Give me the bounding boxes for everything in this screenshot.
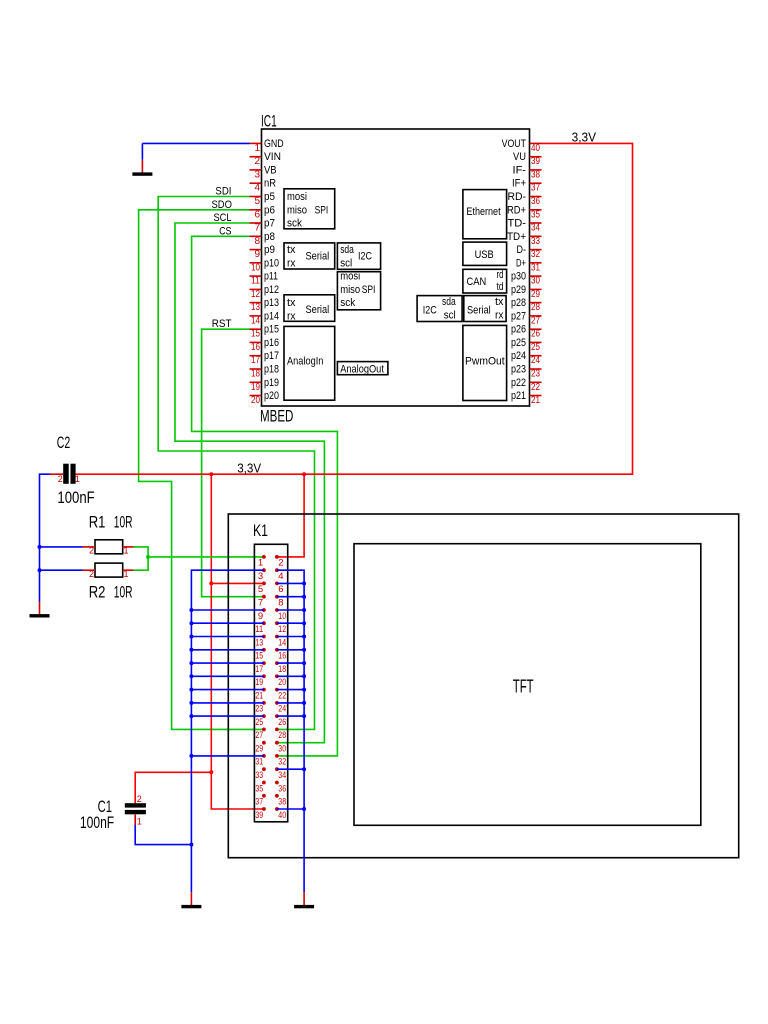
IC1 pin 3 (VB) stub [250, 169, 262, 171]
svg-text:p27: p27 [511, 310, 526, 322]
svg-text:nR: nR [264, 178, 276, 190]
svg-text:p8: p8 [264, 231, 275, 243]
svg-text:VU: VU [513, 151, 526, 163]
svg-text:27: 27 [531, 315, 540, 326]
svg-text:15: 15 [255, 651, 263, 662]
svg-text:rx: rx [287, 257, 296, 269]
wire SDO: p6 to K1 pin27 (green) [139, 210, 264, 730]
svg-text:p11: p11 [264, 271, 278, 283]
svg-text:p21: p21 [511, 390, 526, 402]
K1 pin 39 dot [262, 807, 266, 811]
svg-text:13: 13 [251, 302, 260, 313]
wire SCL: p7 to K1 pin30 (green) [175, 223, 324, 743]
wire left bus rung to K1 pin 21 (blue) [191, 689, 264, 691]
IC1 internal SPI box (p5-p7) [284, 189, 335, 230]
IC1 pin 19 (p19) stub [250, 381, 262, 383]
IC1 internal Ethernet box [463, 190, 507, 239]
svg-text:10R: 10R [114, 513, 133, 532]
K1 pin 19 dot [262, 674, 266, 678]
svg-text:33: 33 [255, 770, 263, 781]
wire left bus rung to K1 pin 9 (blue) [191, 609, 264, 611]
IC1 pin 40 (VOUT) stub [530, 142, 542, 144]
IC1 pin 20 (p20) stub [250, 395, 262, 397]
svg-text:RD-: RD- [508, 191, 527, 203]
svg-text:14: 14 [278, 637, 286, 648]
IC1 pin 30 (p30) stub [530, 275, 542, 277]
wire 3.3V drop to K1 pin5 / C1 / pin39 (red) [211, 474, 264, 809]
svg-text:p15: p15 [264, 324, 279, 336]
junction on 3.3V at x=304.1 [302, 472, 306, 476]
svg-text:32: 32 [278, 757, 286, 768]
svg-text:25: 25 [255, 717, 263, 728]
svg-text:td: td [497, 281, 504, 293]
wire branch to R1 pin2 (blue) [40, 546, 83, 548]
ground symbol bottom left [181, 892, 201, 908]
svg-text:sda: sda [442, 296, 456, 308]
junction left bus row 13 [189, 714, 193, 718]
svg-text:24: 24 [531, 355, 540, 366]
R2 pin1 stub [123, 569, 134, 571]
svg-text:p5: p5 [264, 191, 275, 203]
junction right bus row 13 [302, 714, 306, 718]
svg-text:R2: R2 [89, 583, 106, 602]
svg-text:D+: D+ [516, 257, 526, 269]
K1 pin 9 dot [262, 608, 266, 612]
wire right bus rung to K1 pin 24 (blue) [277, 702, 304, 704]
svg-text:3: 3 [254, 169, 260, 180]
junction right bus row 12 [302, 701, 306, 705]
IC1 internal I2C box (p9-p10) [337, 243, 380, 269]
IC1 internal AnalogIn box (p15-p20) [284, 326, 335, 400]
IC1 pin 21 (p21) stub [530, 395, 542, 397]
wire R1/R2 pin1 join (green) [134, 547, 149, 570]
svg-text:40: 40 [531, 143, 540, 154]
IC1 pin 25 (p25) stub [530, 341, 542, 343]
wire right bus rung to K1 pin 6 (blue) [277, 582, 304, 584]
IC1 pin 5 (p5) stub [250, 196, 262, 198]
junction left bus row 16 [189, 754, 193, 758]
svg-text:p22: p22 [511, 377, 526, 389]
wire 3.3V drop to K1 pin2 (red) [277, 474, 304, 557]
IC1 pin 15 (p15) stub [250, 328, 262, 330]
IC1 pin 26 (p26) stub [530, 328, 542, 330]
svg-text:D-: D- [517, 244, 527, 256]
IC1 pin 23 (p23) stub [530, 368, 542, 370]
capacitor C2 [63, 464, 75, 484]
svg-text:38: 38 [531, 169, 540, 180]
resistor R1 [95, 540, 123, 554]
svg-text:2: 2 [254, 156, 260, 167]
svg-text:4: 4 [278, 571, 283, 582]
K1 pin 35 dot [262, 781, 266, 785]
K1 pin 36 dot [275, 781, 279, 785]
wire left bus rung to K1 pin 19 (blue) [191, 675, 264, 677]
svg-text:100nF: 100nF [80, 813, 114, 832]
junction right bus row 9 [302, 661, 306, 665]
junction left bus row 12 [189, 701, 193, 705]
wire GND bus from C2 down to ground (blue) [40, 474, 51, 601]
svg-text:26: 26 [278, 717, 286, 728]
svg-text:9: 9 [254, 249, 260, 260]
svg-text:17: 17 [255, 664, 263, 675]
junction right bus row 4 [302, 595, 306, 599]
K1 pin 16 dot [275, 648, 279, 652]
IC1 pin 36 (RD-) stub [530, 196, 542, 198]
svg-text:18: 18 [251, 369, 260, 380]
wire left bus rung to K1 pin 13 (blue) [191, 636, 264, 638]
K1 pin 25 dot [262, 714, 266, 718]
IC1 internal SPI box 2 (p11-p13) [337, 271, 380, 310]
svg-text:C2: C2 [57, 433, 70, 452]
svg-text:28: 28 [531, 302, 540, 313]
junction right bus row 6 [302, 621, 306, 625]
junction at C1 branch [209, 770, 213, 774]
svg-text:1: 1 [124, 569, 129, 579]
svg-text:4: 4 [254, 183, 260, 194]
wire left bus rung to K1 pin 25 (blue) [191, 715, 264, 717]
svg-text:Ethernet: Ethernet [466, 206, 500, 218]
K1 pin 21 dot [262, 688, 266, 692]
svg-text:8: 8 [278, 598, 283, 609]
wire left bus rung to K1 pin 17 (blue) [191, 662, 264, 664]
svg-text:10: 10 [278, 611, 286, 622]
IC1 internal I2C box 2 (p28-p27) [417, 296, 462, 322]
junction right bus row 20 [302, 807, 306, 811]
IC1 pin 22 (p22) stub [530, 381, 542, 383]
K1 pin 11 dot [262, 621, 266, 625]
IC1 pin 4 (nR) stub [250, 182, 262, 184]
IC1 pin 10 (p10) stub [250, 262, 262, 264]
wire branch to K1 pin5 (red) [211, 582, 264, 584]
junction on 3.3V at x=211.3 [209, 472, 213, 476]
svg-text:IC1: IC1 [261, 112, 277, 131]
IC1 pin 8 (p8) stub [250, 235, 262, 237]
IC1 pin 29 (p29) stub [530, 288, 542, 290]
svg-text:RD+: RD+ [507, 204, 526, 216]
svg-text:9: 9 [258, 611, 263, 622]
svg-text:p23: p23 [511, 364, 526, 376]
K1 pin 22 dot [275, 688, 279, 692]
IC1 pin 18 (p18) stub [250, 368, 262, 370]
svg-text:10: 10 [251, 262, 260, 273]
K1 pin 34 dot [275, 767, 279, 771]
svg-text:2: 2 [278, 558, 283, 569]
svg-text:scl: scl [340, 257, 352, 269]
svg-text:p17: p17 [264, 350, 279, 362]
wire 3.3V from VOUT (red) [76, 143, 633, 474]
svg-text:I2C: I2C [423, 305, 437, 317]
svg-text:22: 22 [278, 690, 286, 701]
K1 pin 23 dot [262, 701, 266, 705]
K1 pin 4 dot [275, 568, 279, 572]
svg-text:31: 31 [531, 262, 540, 273]
svg-text:21: 21 [531, 395, 540, 406]
junction left bus row 5 [189, 608, 193, 612]
wire GND vertical drop [141, 143, 143, 159]
svg-text:SPI: SPI [315, 204, 329, 216]
junction R net [146, 555, 150, 559]
svg-text:Serial: Serial [306, 251, 330, 263]
IC1 pin 31 (D+) stub [530, 262, 542, 264]
K1 pin 18 dot [275, 661, 279, 665]
svg-text:2: 2 [137, 794, 142, 804]
IC1 pin 24 (p24) stub [530, 355, 542, 357]
svg-text:35: 35 [255, 783, 263, 794]
svg-text:USB: USB [475, 249, 494, 261]
IC1 pin 16 (p16) stub [250, 341, 262, 343]
IC1 pin 2 (VIN) stub [250, 156, 262, 158]
junction left bus at C1 [189, 843, 193, 847]
svg-text:7: 7 [254, 223, 260, 234]
resistor R2 [95, 563, 123, 577]
IC1 pin 11 (p11) stub [250, 275, 262, 277]
svg-text:1: 1 [75, 474, 80, 484]
svg-text:5: 5 [258, 584, 263, 595]
svg-text:12: 12 [251, 289, 260, 300]
svg-text:p25: p25 [511, 337, 526, 349]
wire right bus rung to K1 pin 12 (blue) [277, 622, 304, 624]
svg-text:13: 13 [255, 637, 263, 648]
wire left bus rung to K1 pin 15 (blue) [191, 649, 264, 651]
svg-text:p9: p9 [264, 244, 275, 256]
IC1 internal Serial box 3 (p28-p27) [464, 296, 506, 322]
K1 pin 31 dot [262, 754, 266, 758]
IC1 pin 38 (IF-) stub [530, 169, 542, 171]
svg-text:12: 12 [278, 624, 286, 635]
K1 pin 20 dot [275, 674, 279, 678]
svg-text:VB: VB [264, 164, 277, 176]
svg-text:GND: GND [264, 138, 284, 150]
IC1 pin 13 (p13) stub [250, 302, 262, 304]
IC1 pin 27 (p27) stub [530, 315, 542, 317]
K1 pin 6 dot [275, 582, 279, 586]
K1 pin 40 dot [275, 807, 279, 811]
C2 pin 2 stub [50, 473, 63, 475]
svg-text:39: 39 [531, 156, 540, 167]
svg-text:p24: p24 [511, 350, 526, 362]
wire right bus rung to K1 pin 22 (blue) [277, 689, 304, 691]
K1 pin 3 dot [262, 568, 266, 572]
svg-text:32: 32 [531, 249, 540, 260]
svg-text:miso: miso [340, 284, 360, 296]
wire right bus rung to K1 pin 18 (blue) [277, 662, 304, 664]
wire right GND bus from K1 pin4 (blue) [277, 570, 304, 892]
svg-text:1: 1 [124, 546, 129, 556]
svg-text:19: 19 [251, 382, 260, 393]
svg-text:10R: 10R [114, 583, 133, 602]
TFT screen inner rectangle [354, 544, 701, 826]
IC1 internal CAN box (p30-p29) [463, 269, 507, 293]
svg-text:3: 3 [258, 571, 263, 582]
wire C1 pin1 to left bus (blue) [135, 825, 191, 845]
svg-text:PwmOut: PwmOut [465, 356, 505, 368]
IC1 internal Serial box (p9-p10) [284, 243, 335, 269]
svg-text:1: 1 [254, 143, 260, 154]
IC1 pin 17 (p17) stub [250, 355, 262, 357]
svg-text:p28: p28 [511, 297, 526, 309]
svg-text:mosi: mosi [340, 271, 360, 283]
svg-text:2: 2 [89, 569, 94, 579]
wire RST: p15 to K1 pin7 (green) [202, 329, 264, 597]
svg-text:SPI: SPI [362, 284, 376, 296]
junction right bus row 11 [302, 688, 306, 692]
svg-text:37: 37 [531, 183, 540, 194]
svg-text:25: 25 [531, 342, 540, 353]
svg-text:p18: p18 [264, 364, 279, 376]
svg-text:MBED: MBED [260, 407, 293, 426]
IC1 pin 32 (D-) stub [530, 249, 542, 251]
IC1 pin 35 (RD+) stub [530, 209, 542, 211]
svg-text:27: 27 [255, 730, 263, 741]
K1 pin 15 dot [262, 648, 266, 652]
wire branch to R2 pin2 (blue) [40, 569, 83, 571]
svg-text:Serial: Serial [306, 304, 330, 316]
svg-text:23: 23 [255, 704, 263, 715]
svg-text:11: 11 [255, 624, 263, 635]
junction right bus row 5 [302, 608, 306, 612]
K1 pin 33 dot [262, 767, 266, 771]
IC1 pin 34 (TD-) stub [530, 222, 542, 224]
svg-text:p30: p30 [511, 271, 526, 283]
svg-text:29: 29 [531, 289, 540, 300]
K1 pin 2 dot [275, 555, 279, 559]
K1 pin 5 dot [262, 582, 266, 586]
IC1 pin 39 (VU) stub [530, 156, 542, 158]
svg-text:8: 8 [254, 236, 260, 247]
svg-text:1: 1 [137, 817, 142, 827]
svg-text:36: 36 [278, 783, 286, 794]
wire right bus rung to K1 pin 26 (blue) [277, 715, 304, 717]
svg-text:3,3V: 3,3V [237, 462, 262, 476]
svg-text:26: 26 [531, 329, 540, 340]
svg-text:40: 40 [278, 810, 286, 821]
svg-text:p29: p29 [511, 284, 526, 296]
svg-text:39: 39 [255, 810, 263, 821]
K1 pin 32 dot [275, 754, 279, 758]
K1 pin 24 dot [275, 701, 279, 705]
svg-text:p13: p13 [264, 297, 279, 309]
wire right bus rung to K1 pin 14 (blue) [277, 636, 304, 638]
svg-text:AnalogIn: AnalogIn [287, 356, 323, 368]
svg-text:VOUT: VOUT [502, 138, 527, 150]
C1 pin1 stub [134, 814, 136, 825]
capacitor C1 [125, 803, 146, 814]
svg-text:IF+: IF+ [512, 178, 526, 190]
junction right bus row 8 [302, 648, 306, 652]
svg-text:6: 6 [278, 584, 283, 595]
wire right bus rung to K1 pin 16 (blue) [277, 649, 304, 651]
IC1 pin 9 (p9) stub [250, 249, 262, 251]
ground symbol below C2/R bus [30, 602, 50, 618]
svg-text:28: 28 [278, 730, 286, 741]
svg-text:20: 20 [251, 395, 260, 406]
IC1 pin 1 (GND) stub [250, 142, 262, 144]
IC1 internal Serial box 2 (p13-p14) [284, 295, 335, 323]
svg-text:7: 7 [258, 598, 263, 609]
R2 pin2 stub [83, 569, 96, 571]
svg-text:p10: p10 [264, 257, 279, 269]
op-amp IC1 (MBED module) outline [262, 129, 530, 406]
svg-text:36: 36 [531, 196, 540, 207]
wire right bus rung to K1 pin 10 (blue) [277, 609, 304, 611]
net GND wire from IC1 pin1 (blue) [142, 142, 249, 144]
svg-text:p7: p7 [264, 218, 275, 230]
svg-text:33: 33 [531, 236, 540, 247]
junction left bus row 9 [189, 661, 193, 665]
IC1 pin 7 (p7) stub [250, 222, 262, 224]
svg-text:sck: sck [287, 218, 302, 230]
svg-text:p12: p12 [264, 284, 279, 296]
svg-text:23: 23 [531, 369, 540, 380]
junction left bus row 10 [189, 674, 193, 678]
IC1 pin 14 (p14) stub [250, 315, 262, 317]
svg-text:29: 29 [255, 744, 263, 755]
svg-text:31: 31 [255, 757, 263, 768]
wire right bus rung to K1 pin 8 (blue) [277, 596, 304, 598]
svg-text:K1: K1 [253, 521, 268, 540]
svg-text:sck: sck [340, 297, 355, 309]
svg-text:34: 34 [278, 770, 286, 781]
junction at pin5 branch [209, 581, 213, 585]
svg-text:35: 35 [531, 209, 540, 220]
K1 pin 26 dot [275, 714, 279, 718]
svg-text:mosi: mosi [287, 191, 307, 203]
svg-text:34: 34 [531, 223, 540, 234]
svg-text:17: 17 [251, 355, 260, 366]
IC1 internal PwmOut box (p26-p21) [463, 325, 507, 400]
svg-text:100nF: 100nF [57, 488, 94, 507]
connector K1 outline [254, 544, 287, 822]
svg-text:19: 19 [255, 677, 263, 688]
svg-text:38: 38 [278, 797, 286, 808]
svg-text:Serial: Serial [467, 305, 491, 317]
svg-text:6: 6 [254, 209, 260, 220]
svg-text:18: 18 [278, 664, 286, 675]
svg-text:5: 5 [254, 196, 260, 207]
svg-text:30: 30 [278, 744, 286, 755]
svg-text:rx: rx [287, 310, 296, 322]
junction at R1 branch [38, 545, 42, 549]
junction left bus row 11 [189, 688, 193, 692]
svg-text:I2C: I2C [358, 251, 372, 263]
K1 pin 7 dot [262, 595, 266, 599]
svg-text:p16: p16 [264, 337, 279, 349]
K1 pin 17 dot [262, 661, 266, 665]
svg-text:R1: R1 [89, 513, 106, 532]
svg-text:TFT: TFT [513, 677, 534, 697]
svg-text:p20: p20 [264, 390, 279, 402]
svg-text:16: 16 [278, 651, 286, 662]
svg-text:VIN: VIN [264, 151, 281, 163]
svg-text:30: 30 [531, 276, 540, 287]
IC1 internal USB box [463, 242, 507, 265]
svg-text:tx: tx [287, 244, 296, 256]
svg-text:22: 22 [531, 382, 540, 393]
svg-text:tx: tx [287, 297, 296, 309]
svg-text:21: 21 [255, 690, 263, 701]
wire CS: p8 to K1 pin32 (green) [192, 236, 338, 756]
junction at R2 branch [38, 568, 42, 572]
wire left bus rung to K1 pin 23 (blue) [191, 702, 264, 704]
K1 pin 30 dot [275, 741, 279, 745]
ground symbol bottom right [294, 892, 314, 908]
wire left bus rung to K1 pin 31 (blue) [191, 755, 264, 757]
svg-text:16: 16 [251, 342, 260, 353]
svg-text:scl: scl [444, 309, 456, 321]
junction right bus row 10 [302, 674, 306, 678]
svg-text:15: 15 [251, 329, 260, 340]
svg-text:tx: tx [495, 296, 504, 308]
